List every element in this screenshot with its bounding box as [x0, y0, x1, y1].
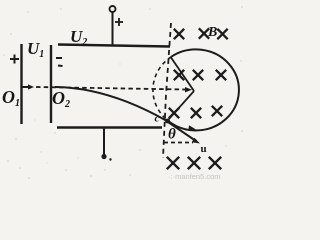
capacitor plate D2 (deflecting, bottom): [57, 126, 162, 129]
svg-text:c: c: [155, 113, 160, 125]
radius to entry point c: [168, 91, 194, 120]
wire stub of plate D1: [112, 12, 114, 45]
svg-text:u: u: [201, 143, 207, 155]
flux symbol x row3 c: [212, 106, 222, 116]
capacitor plate A1 (accelerating, left, positive): [20, 44, 22, 124]
speck near terminal of D2: [109, 158, 111, 160]
svg-text:·:·manfen5.com: ·:·manfen5.com: [168, 172, 221, 181]
angle reference dashed horizontal: [164, 142, 193, 144]
velocity arrow u at point c: [168, 122, 200, 144]
field boundary dashed line: [163, 23, 171, 158]
flux symbol x row4 c: [209, 157, 221, 169]
flux symbol x row4 a: [167, 157, 179, 169]
flux symbol x row1 c: [217, 29, 227, 39]
circular path in magnetic field (solid major arc): [168, 49, 239, 130]
plus sign at terminal of D1: [115, 18, 123, 26]
minus signs of plate A2: [56, 58, 63, 66]
capacitor plate D1 (deflecting, top): [58, 45, 170, 47]
terminal of plate D1: [110, 6, 116, 12]
capacitor plate A2 (accelerating, right, negative): [50, 45, 52, 123]
terminal dot of plate D2: [101, 154, 106, 159]
axis dashed line O1-O2-center: [36, 87, 185, 90]
plus sign of plate A1: [10, 55, 19, 64]
entry point c junction dot: [165, 119, 170, 124]
flux symbol x row4 b: [188, 157, 200, 169]
scan speckle noise: [3, 6, 243, 179]
initial velocity arrow at O1: [21, 84, 34, 89]
axis arrowhead at field circle center: [185, 87, 192, 92]
background paper: [0, 0, 246, 181]
direction arrowhead on circular path: [188, 125, 196, 130]
wire stub of plate D2: [103, 128, 105, 155]
flux symbol x row1 b: [199, 28, 209, 38]
flux symbol x row2 a: [174, 70, 184, 80]
trajectory parabola in deflecting field: [55, 87, 167, 121]
circular path outside field (dashed minor arc): [153, 57, 171, 121]
flux symbol x row1 a: [174, 29, 184, 39]
flux symbol x row3 a: [169, 108, 179, 118]
flux symbol x row2 c: [216, 70, 226, 80]
flux symbol x row2 b: [193, 70, 203, 80]
flux symbol x row3 b: [191, 108, 201, 118]
radius to exit point: [171, 57, 194, 91]
svg-text:θ: θ: [168, 127, 176, 143]
